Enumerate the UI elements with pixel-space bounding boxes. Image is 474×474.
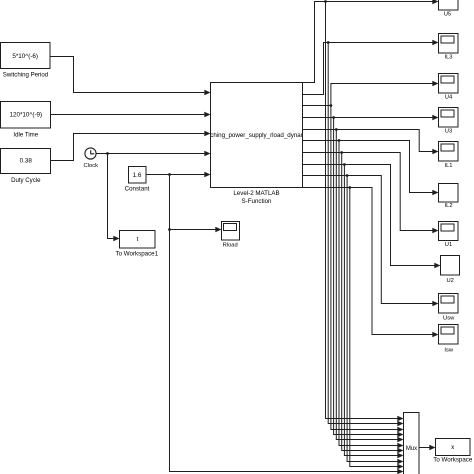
arrowhead in4 — [204, 151, 210, 156]
arrowhead in5 — [204, 172, 210, 177]
wire out3 stub — [303, 105, 331, 107]
wire Duty Cycle to S-Function in3 — [51, 134, 205, 161]
arrowhead U4 — [432, 81, 438, 86]
junction clock branch — [106, 152, 109, 155]
wire Mux to To Workspace — [419, 447, 430, 449]
scope IL2 — [439, 184, 459, 203]
scope U4 — [439, 74, 459, 94]
svg-text:IL3: IL3 — [444, 55, 452, 61]
junction out4 branch — [332, 116, 335, 119]
arrowhead Mux in1 — [397, 416, 403, 421]
arrowhead Mux in4 — [397, 432, 403, 437]
wire branch to Rload scope — [170, 229, 216, 231]
scope U2 — [441, 256, 460, 276]
arrowhead Mux in9 — [397, 459, 403, 464]
To Workspace1 block (t) — [120, 231, 156, 249]
svg-text:t: t — [137, 236, 139, 243]
arrowhead Mux in8 — [397, 453, 403, 458]
arrowhead Isw — [432, 332, 438, 337]
wire out6 to scope IL2 — [303, 141, 433, 193]
junction out2 branch — [327, 41, 330, 44]
wire Constant to S-Function in5 — [146, 174, 204, 176]
constant block Duty Cycle (0.38) — [1, 149, 51, 174]
svg-text:Clock: Clock — [84, 163, 99, 169]
junction constant branch — [168, 173, 171, 176]
svg-text:U5: U5 — [444, 12, 451, 18]
svg-text:U4: U4 — [445, 94, 453, 100]
scope U3 — [439, 108, 459, 128]
junction out3 branch — [330, 104, 333, 107]
wire out8 trunk to Mux in8 — [344, 165, 397, 456]
wire out4 trunk to Mux in4 — [334, 118, 398, 435]
To Workspace block (x) — [436, 439, 471, 456]
arrowhead To Workspace1 — [113, 236, 119, 241]
arrowhead Mux in3 — [397, 427, 403, 432]
scope Usw — [439, 294, 459, 314]
svg-text:IL1: IL1 — [444, 163, 452, 169]
scope IL1 — [439, 142, 459, 162]
arrowhead Rload — [215, 227, 221, 232]
svg-text:To Workspace1: To Workspace1 — [116, 250, 159, 257]
scope U5 — [439, 0, 459, 10]
arrowhead Mux in7 — [397, 448, 403, 453]
svg-text:To Workspace: To Workspace — [433, 457, 473, 464]
arrowhead To Workspace — [429, 445, 435, 450]
svg-text:U2: U2 — [446, 278, 453, 284]
scope Isw — [439, 325, 459, 345]
constant block Constant (1.6) — [129, 167, 147, 184]
svg-text:120*10^(-9): 120*10^(-9) — [9, 112, 42, 119]
wire constant trunk to Mux in11 — [170, 175, 398, 472]
svg-text:U3: U3 — [445, 128, 452, 134]
scope IL3 — [439, 34, 459, 54]
wire out9 to scope Usw — [303, 176, 433, 304]
constant block Switching Period (5*10^(-6)) — [1, 43, 51, 69]
svg-text:Rload: Rload — [223, 243, 238, 249]
wire out7 trunk to Mux in7 — [342, 153, 398, 451]
svg-text:Level-2 MATLAB: Level-2 MATLAB — [233, 190, 279, 197]
arrowhead in2 — [204, 112, 210, 117]
wire out8 to scope U2 — [303, 165, 435, 266]
wire out7 to scope U1 — [303, 153, 433, 231]
svg-text:Isw: Isw — [444, 348, 454, 354]
Mux block — [404, 413, 420, 474]
wire Clock to S-Function in4 — [96, 153, 204, 155]
svg-text:S-Function: S-Function — [242, 198, 272, 205]
junction Rload branch — [168, 228, 171, 231]
wire out2 trunk to Mux in2 — [328, 43, 398, 424]
wire out10 to scope Isw — [303, 188, 433, 335]
wire out6 trunk to Mux in6 — [339, 141, 398, 446]
svg-text:switching_power_supply_rload_d: switching_power_supply_rload_dynamics — [200, 132, 314, 139]
junction out10 branch — [348, 186, 351, 189]
svg-text:Constant: Constant — [125, 185, 150, 192]
svg-text:Mux: Mux — [406, 446, 417, 452]
arrowhead U3 — [432, 115, 438, 120]
wire out3 trunk to Mux in3 — [331, 106, 398, 430]
scope U1 — [439, 222, 459, 241]
arrowhead in1 — [204, 90, 210, 95]
wire out4 to scope U3 — [303, 117, 433, 119]
junction out6 branch — [338, 139, 341, 142]
wire out2 to scope IL3 — [303, 43, 433, 95]
svg-text:Switching Period: Switching Period — [3, 71, 48, 78]
constant block Idle Time (120*10^(-9)) — [1, 102, 51, 129]
wire out9 trunk to Mux in9 — [347, 176, 398, 462]
wire out1 to scope U5 — [303, 2, 433, 83]
arrowhead U2 — [434, 263, 440, 268]
arrowhead U1 — [432, 228, 438, 233]
svg-text:Duty Cycle: Duty Cycle — [11, 177, 41, 184]
clock block — [85, 148, 96, 159]
arrowhead Mux in5 — [397, 437, 403, 442]
arrowhead U5 — [432, 0, 438, 4]
svg-text:0.38: 0.38 — [20, 158, 33, 165]
svg-text:U1: U1 — [445, 242, 452, 248]
arrowhead IL2 — [432, 190, 438, 195]
svg-text:IL2: IL2 — [445, 203, 453, 209]
wire out5 trunk to Mux in5 — [336, 130, 398, 440]
arrowhead IL3 — [432, 40, 438, 45]
wire Switching Period to S-Function in1 — [50, 57, 204, 93]
arrowhead Mux in11 — [397, 469, 403, 474]
wire clock branch to To Workspace1 — [108, 154, 114, 239]
svg-text:5*10^(-6): 5*10^(-6) — [12, 53, 38, 60]
wire out5 to scope IL1 — [303, 130, 433, 152]
svg-text:1.6: 1.6 — [133, 172, 142, 179]
junction out9 branch — [346, 174, 349, 177]
arrowhead Mux in10 — [397, 464, 403, 469]
arrowhead Mux in2 — [397, 421, 403, 426]
junction out8 branch — [343, 163, 346, 166]
junction out5 branch — [335, 128, 338, 131]
S-Function block switching_power_supply_rload_dynamics — [200, 83, 314, 188]
svg-text:Idle Time: Idle Time — [13, 131, 38, 138]
wire out10 trunk to Mux in10 — [350, 188, 398, 467]
arrowhead in3 — [204, 131, 210, 136]
scope Rload — [222, 222, 240, 241]
wire out3 to scope U4 — [331, 84, 433, 106]
arrowhead Usw — [432, 301, 438, 306]
junction out7 branch — [340, 151, 343, 154]
svg-text:Usw: Usw — [443, 316, 455, 322]
arrowhead Mux in6 — [397, 443, 403, 448]
wire Idle Time to S-Function in2 — [51, 114, 205, 116]
arrowhead IL1 — [432, 149, 438, 154]
junction out1 branch — [324, 0, 327, 3]
wire out1 trunk to Mux in1 — [326, 2, 398, 419]
